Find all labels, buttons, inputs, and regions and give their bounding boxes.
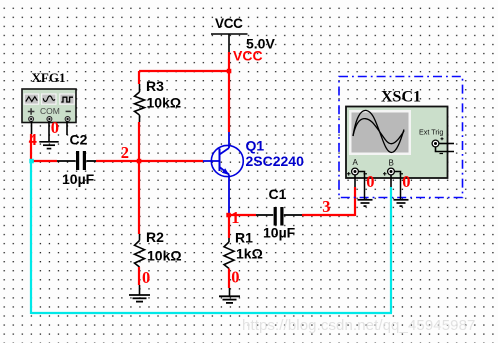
svg-text:C1: C1 [269, 186, 287, 202]
wire VCC vertical (red main rail) [228, 52, 230, 132]
ground R1 [219, 296, 240, 303]
svg-text:VCC: VCC [233, 48, 263, 64]
power symbol VCC [211, 34, 248, 52]
svg-text:3: 3 [322, 197, 330, 216]
svg-text:XSC1: XSC1 [381, 89, 421, 106]
svg-text:Q1: Q1 [246, 138, 265, 154]
svg-text:10µF: 10µF [263, 225, 296, 241]
capacitor C1 [256, 207, 302, 226]
svg-text:4: 4 [29, 130, 37, 149]
wire scope A pin down (black) [354, 175, 356, 187]
svg-text:10µF: 10µF [62, 171, 95, 187]
capacitor C2 [57, 151, 96, 170]
wire cyan bottom horizontal [31, 312, 392, 314]
svg-text:R1: R1 [235, 230, 253, 246]
svg-text:0: 0 [142, 268, 150, 287]
wire node1 to C1 [229, 214, 256, 216]
wire A minus to ground [359, 172, 365, 200]
svg-text:0: 0 [366, 172, 374, 191]
function generator XFG1 [22, 89, 76, 123]
junction VCC node [227, 69, 232, 74]
wire C1 to scope A [302, 214, 355, 216]
wire XFG1 minus stub [66, 121, 68, 135]
svg-text:B: B [389, 158, 394, 167]
wire node4 to C2 (red) [31, 160, 57, 162]
wire Ext Trig minus stub [436, 147, 455, 152]
wire scope B pin down (black) [390, 175, 392, 187]
wire R1 bottom [228, 269, 230, 289]
wire cyan left vertical [30, 161, 32, 314]
svg-text:1kΩ: 1kΩ [236, 246, 263, 262]
svg-text:10kΩ: 10kΩ [147, 95, 182, 111]
svg-text:0: 0 [51, 118, 59, 137]
wire XFG1 plus pin stub [31, 121, 33, 134]
terminal B [383, 168, 403, 176]
svg-text:R2: R2 [146, 229, 164, 245]
junction node 1 [226, 213, 231, 218]
wire C2 to node2 to Q1 base [96, 160, 203, 162]
wire cyan right vertical to scope B [390, 187, 392, 313]
junction cyan node [29, 159, 34, 164]
svg-text:2: 2 [121, 143, 129, 162]
svg-text:Ext Trig: Ext Trig [419, 128, 443, 137]
resistor R2 [135, 234, 145, 267]
transistor Q1 [203, 132, 243, 213]
oscilloscope XSC1 panel [346, 107, 448, 179]
svg-text:2SC2240: 2SC2240 [246, 153, 305, 169]
svg-text:1: 1 [231, 208, 239, 227]
wire R2 bottom [138, 267, 140, 285]
svg-text:COM: COM [40, 106, 60, 116]
svg-text:0: 0 [402, 172, 410, 191]
oscilloscope XSC1 selection box [339, 77, 463, 198]
wire top horizontal to R3 [139, 70, 229, 72]
svg-text:XFG1: XFG1 [32, 70, 66, 85]
ground scope A [358, 200, 373, 206]
terminal Ext Trig [432, 137, 443, 153]
svg-text:C2: C2 [70, 132, 88, 148]
resistor R1 [224, 238, 234, 269]
wire R1 to ground [229, 288, 231, 296]
terminal A [347, 168, 367, 176]
svg-text:10kΩ: 10kΩ [147, 248, 182, 264]
wire XFG1 COM pin [48, 121, 50, 142]
svg-text:VCC: VCC [215, 16, 243, 31]
svg-text:https://blog.csdn.net/qq_45945: https://blog.csdn.net/qq_45945987 [242, 317, 476, 334]
wire B minus to ground [395, 172, 401, 200]
wire Q1 emitter to node 1 / R1 [228, 213, 230, 238]
ground XFG1 [39, 142, 58, 149]
wire R3 top [138, 71, 140, 84]
wire XFG1 plus to node (red) [30, 134, 32, 161]
ground R2 [129, 295, 150, 302]
wire R3 bottom to node 2 and R2 top [138, 122, 140, 234]
wire Ext Trig plus stub [439, 143, 454, 145]
wire up to scope A (red) [354, 187, 356, 216]
wire R2 to ground [139, 285, 141, 295]
svg-text:0: 0 [231, 268, 239, 287]
svg-text:A: A [353, 158, 359, 167]
svg-text:R3: R3 [146, 78, 164, 94]
junction node 2 [137, 159, 142, 164]
resistor R3 [135, 84, 145, 122]
ground scope B [394, 200, 409, 206]
